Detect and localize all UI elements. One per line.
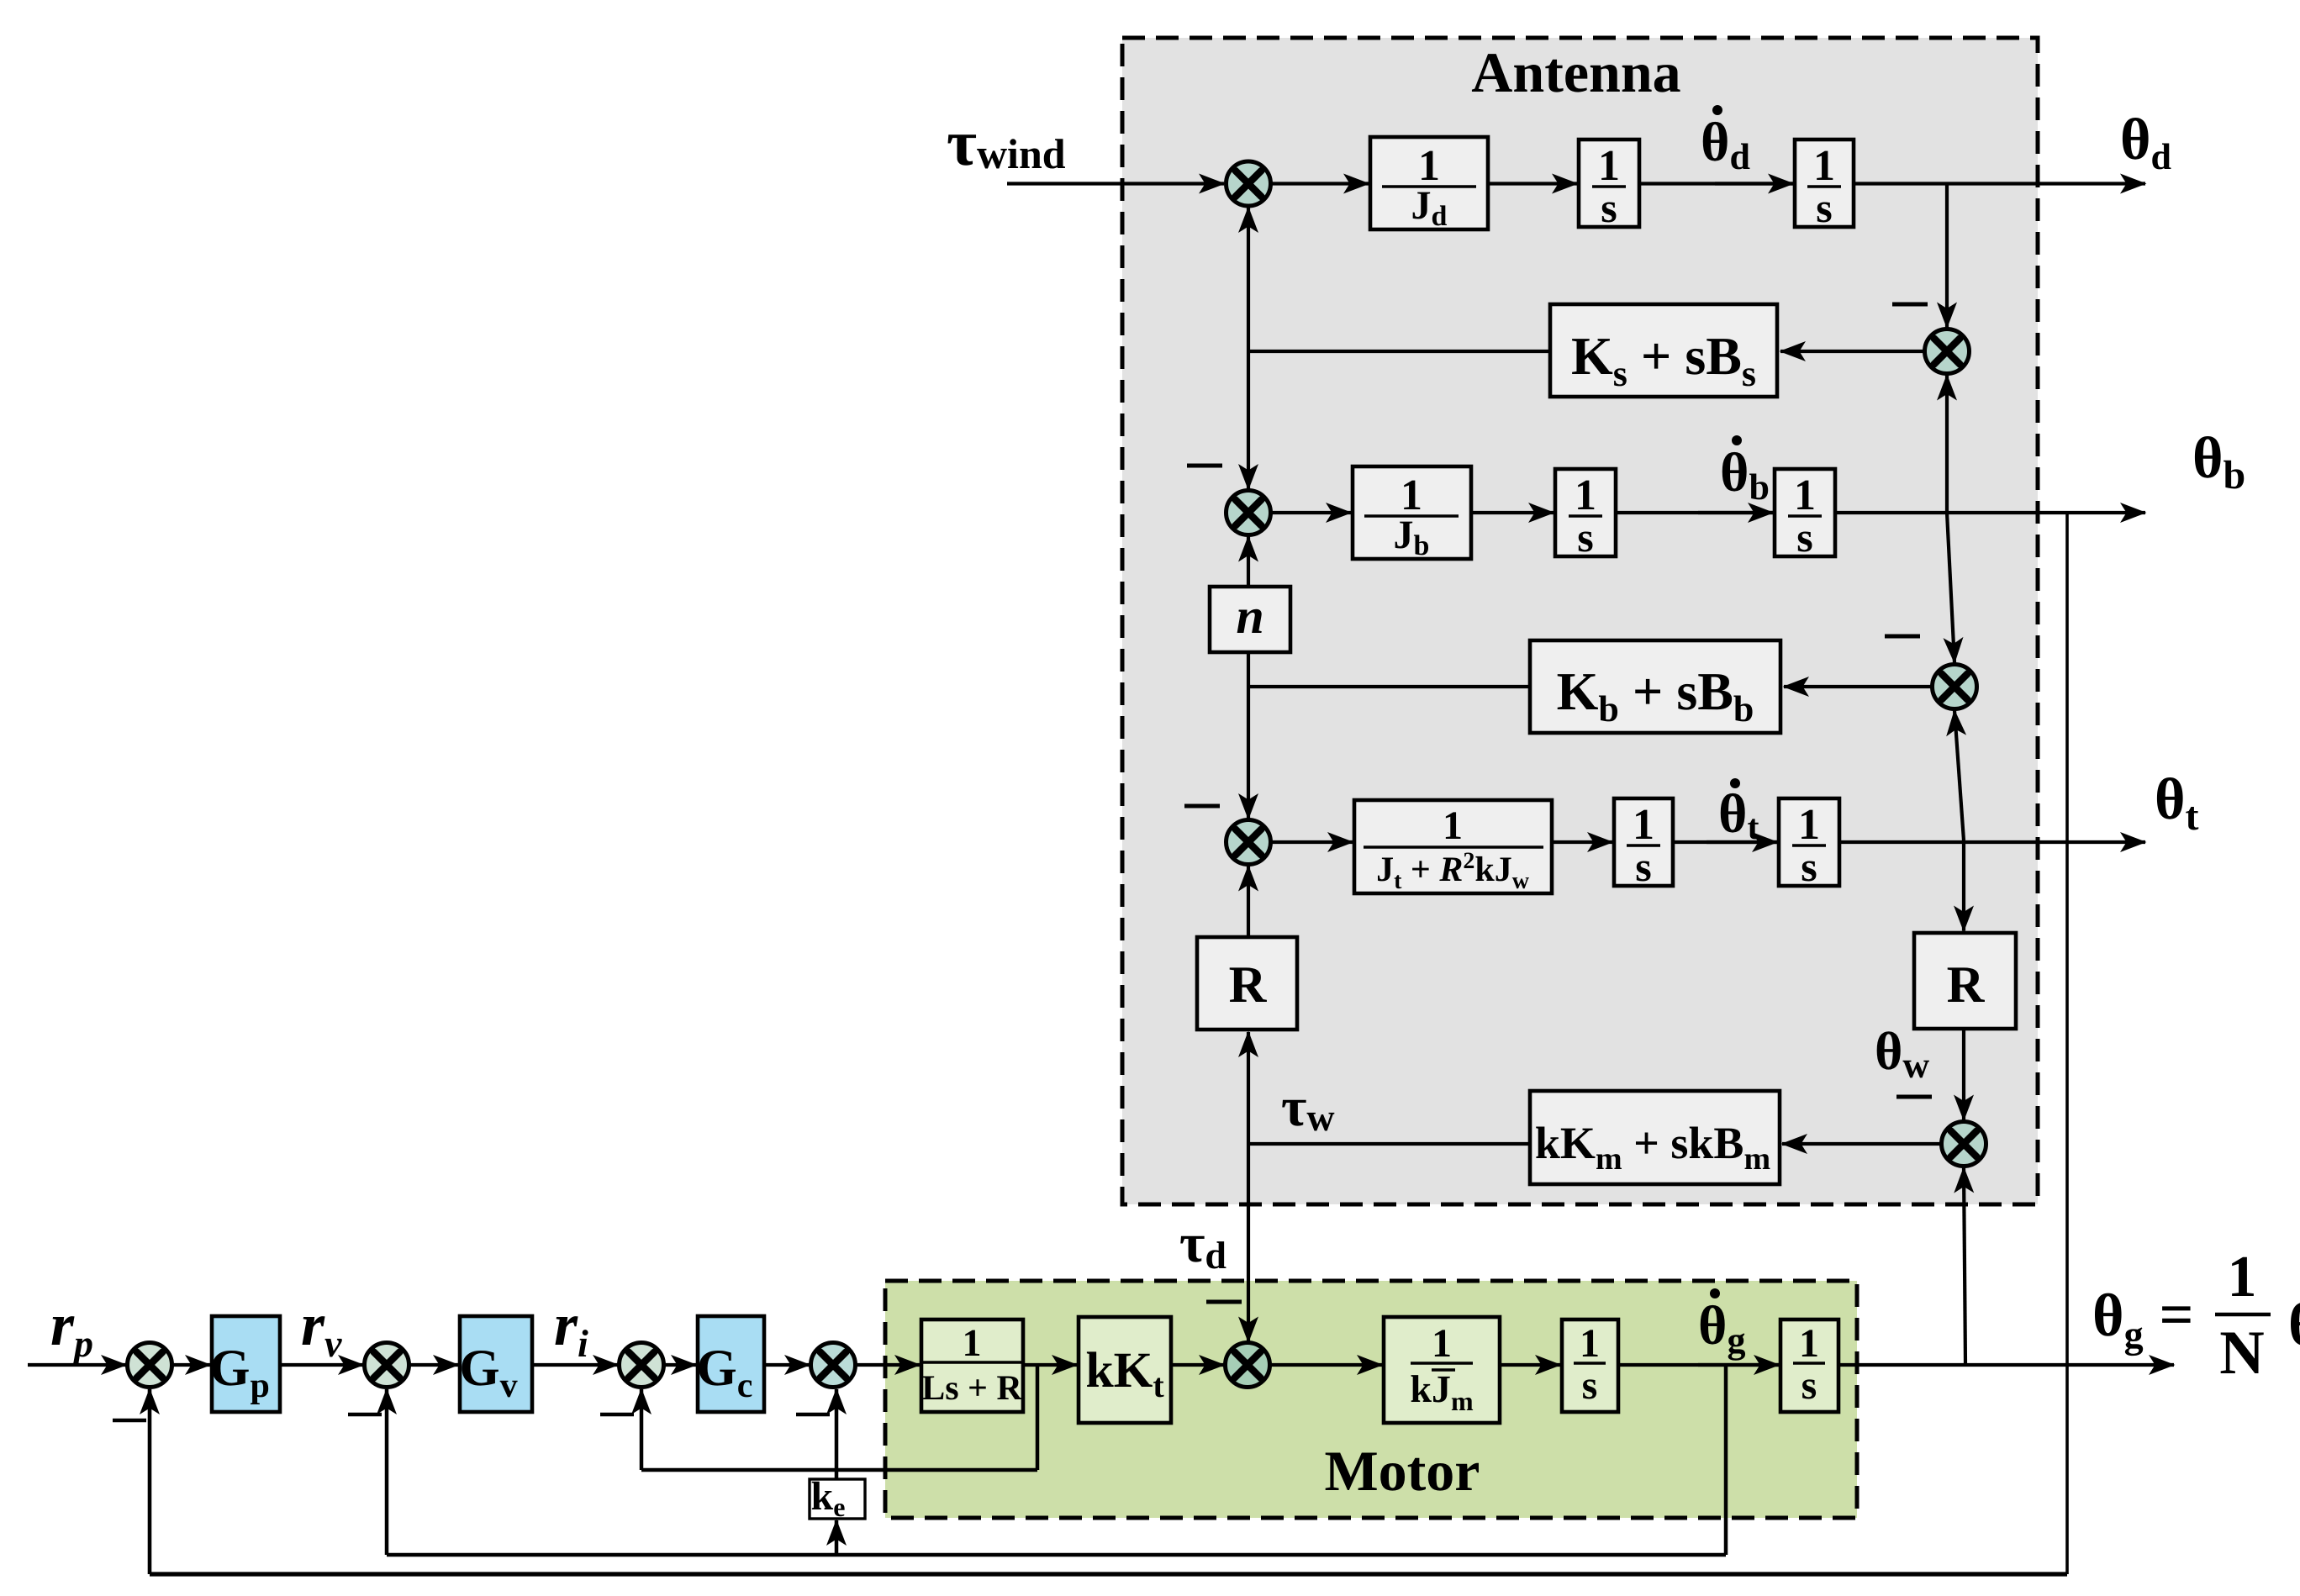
svg-text:s: s: [1796, 514, 1812, 561]
svg-text:Ls + R: Ls + R: [921, 1369, 1022, 1408]
svg-text:1: 1: [1794, 471, 1816, 519]
svg-text:1: 1: [963, 1321, 982, 1364]
svg-text:1: 1: [1813, 142, 1835, 190]
svg-text:s: s: [1582, 1363, 1598, 1408]
svg-text:θ: θ: [2288, 1291, 2300, 1358]
svg-text:1: 1: [1798, 801, 1820, 849]
svg-text:s: s: [1635, 843, 1651, 890]
svg-text:1: 1: [1799, 1321, 1819, 1366]
svg-text:s: s: [1816, 184, 1832, 231]
svg-text:1: 1: [1580, 1321, 1600, 1366]
svg-text:s: s: [1601, 184, 1617, 231]
svg-text:R: R: [1947, 956, 1986, 1014]
svg-text:N: N: [2219, 1319, 2264, 1388]
svg-text:s: s: [1577, 514, 1593, 561]
svg-text:Kb + sBb: Kb + sBb: [1557, 661, 1754, 730]
svg-text:1: 1: [1432, 1321, 1452, 1366]
svg-text:n: n: [1236, 588, 1263, 644]
svg-text:Ks + sBs: Ks + sBs: [1571, 326, 1756, 394]
svg-text:Motor: Motor: [1324, 1439, 1480, 1503]
svg-text:1: 1: [1575, 471, 1596, 519]
svg-text:s: s: [1801, 843, 1817, 890]
svg-text:1: 1: [2228, 1245, 2257, 1309]
svg-text:kKm + skBm: kKm + skBm: [1535, 1118, 1770, 1177]
svg-text:1: 1: [1598, 142, 1620, 190]
svg-text:kKt: kKt: [1085, 1342, 1164, 1404]
svg-text:s: s: [1801, 1363, 1817, 1408]
svg-text:1: 1: [1633, 801, 1654, 849]
svg-text:=: =: [2159, 1281, 2193, 1348]
svg-text:R: R: [1229, 956, 1268, 1014]
svg-text:1: 1: [1443, 803, 1463, 848]
svg-text:Antenna: Antenna: [1471, 40, 1680, 104]
